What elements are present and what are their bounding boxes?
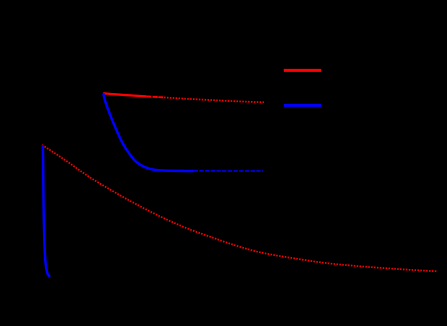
upper red mid dashed transition [146, 96, 163, 97]
upper blue dashed tail [194, 170, 263, 172]
lower blue solid steep decay curve [43, 145, 50, 277]
upper red solid head segment [103, 93, 146, 96]
legend blue line sample [284, 104, 321, 107]
upper blue solid decay curve [103, 93, 193, 171]
legend red line sample [284, 69, 321, 72]
lower red dotted decay curve [42, 145, 437, 271]
upper red dotted decline curve [103, 93, 264, 102]
